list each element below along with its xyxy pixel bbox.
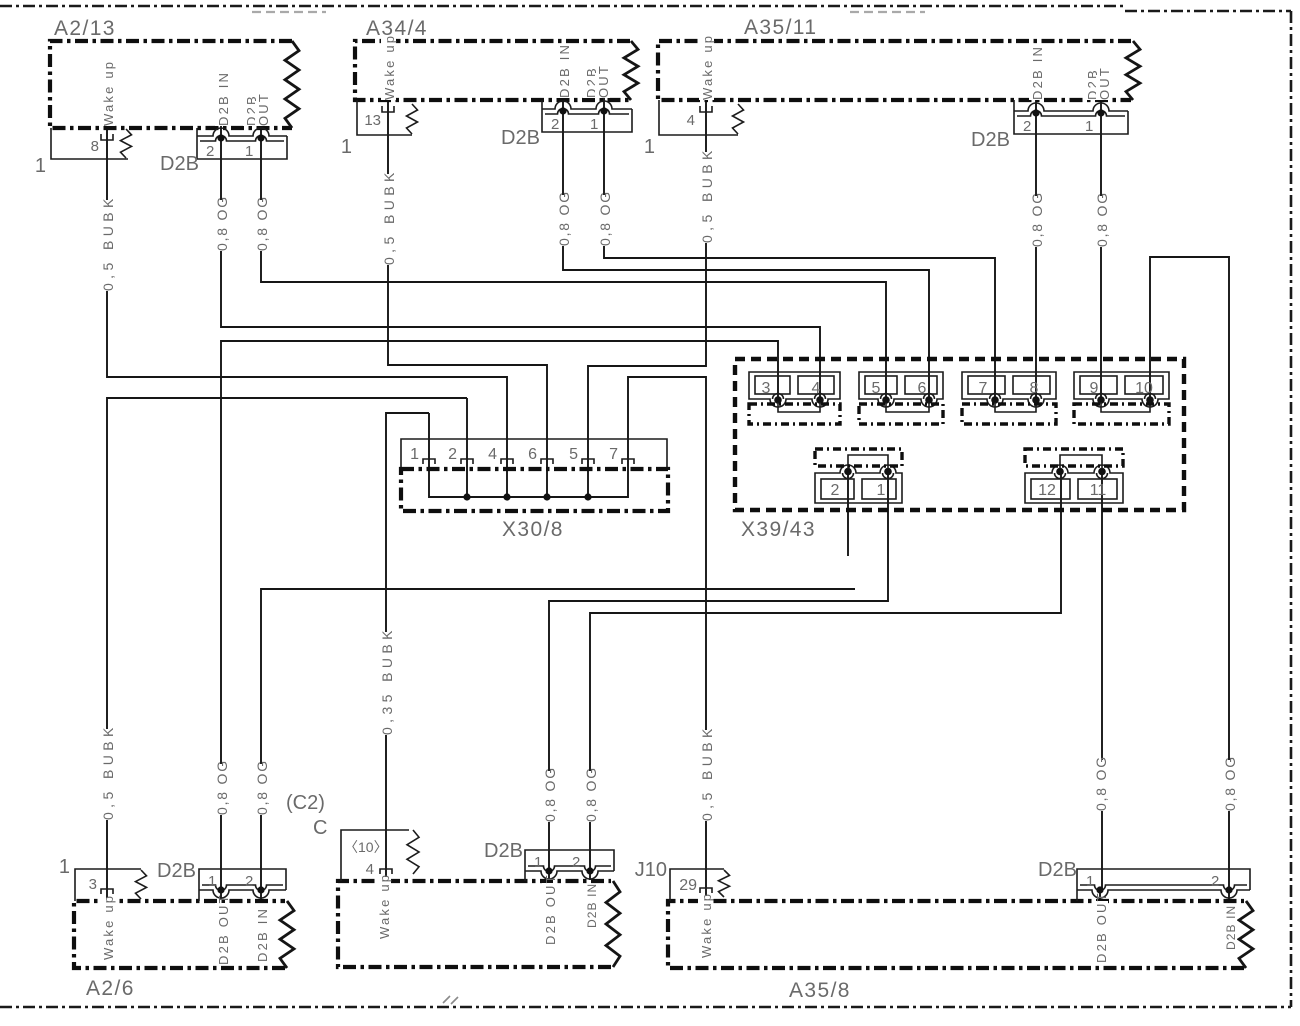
- label D2B IN A34/4: [556, 45, 571, 98]
- wire A35/11 pin4 to X30/8 pin5 (0,5 BUBK): [588, 94, 706, 470]
- wire X30/8 pin4 through: [506, 470, 508, 497]
- svg-text:D2B: D2B: [157, 860, 196, 882]
- X30/8 pin 6: [541, 459, 553, 464]
- svg-text:0,5 BUBK: 0,5 BUBK: [381, 168, 397, 265]
- svg-text:C: C: [313, 817, 327, 839]
- svg-text:A35/11: A35/11: [744, 16, 817, 39]
- A35/11 pin 4: [700, 106, 712, 112]
- label wake up A34/4: [381, 38, 396, 100]
- wire label 0,5 BUBK A2/13: [100, 200, 115, 291]
- label D2B IN A2/6: [254, 909, 269, 962]
- label D2B OUT A2/6: [215, 903, 230, 965]
- A34/4 wake-up resistor: [407, 104, 418, 134]
- X39/43 pins 12 and 11: [1025, 465, 1123, 503]
- svg-text:0,8 OG: 0,8 OG: [1222, 755, 1238, 811]
- X30/8 pin 7: [622, 459, 634, 464]
- label wake up A2/6: [100, 898, 115, 960]
- connector block X30/8 box: [401, 469, 668, 511]
- C D2B connector: [525, 850, 614, 881]
- svg-text:3: 3: [762, 380, 771, 397]
- wire A2/13 pin8 to X30/8 pin4 (0,5 BUBK): [107, 122, 507, 470]
- svg-text:2: 2: [448, 446, 457, 463]
- wire label 0,8 OG A34/4 pin2: [556, 195, 571, 246]
- wire label 0,5 BUBK A34/4: [381, 174, 396, 265]
- svg-text:0,8 OG: 0,8 OG: [1029, 191, 1045, 247]
- svg-text:6: 6: [528, 446, 537, 463]
- label OUT A35/11: [1096, 75, 1111, 100]
- svg-text:OUT: OUT: [1097, 66, 1112, 100]
- wire label 0,5 BUBK A35/11: [699, 152, 714, 243]
- svg-text:Wake up: Wake up: [101, 60, 116, 126]
- wire A35/11 D2B pin1 to X39/43 pin9 (0,8 OG): [1100, 96, 1102, 398]
- wire X30/8 pin1 to C pin4 (0,35 BUBK): [386, 413, 429, 879]
- svg-text:0,5 BUBK: 0,5 BUBK: [100, 723, 116, 820]
- label D2B (OUT) A2/13: [243, 101, 258, 126]
- wire X30/8 pin2 to A2/6 pin3 (0,5 BUBK): [107, 398, 467, 899]
- A35/8 D2B connector: [1077, 869, 1250, 901]
- wire A34/4 D2B pin1 to X39/43 pin7 (0,8 OG): [604, 92, 995, 398]
- wire label 0,8 OG A2/13 pin1: [254, 200, 269, 251]
- wire label 0,8 OG A2/6 pin2: [254, 764, 269, 815]
- label D2B (OUT) A34/4: [583, 73, 598, 98]
- svg-text:Wake up: Wake up: [377, 873, 392, 939]
- A2/13 pin 8: [101, 134, 113, 140]
- svg-text:1: 1: [534, 854, 542, 871]
- X30/8 pin 1: [423, 459, 435, 464]
- C cut mark zigzag: [407, 830, 419, 874]
- svg-text:0,5 BUBK: 0,5 BUBK: [100, 194, 116, 291]
- X39/43 pins 3 and 4: [749, 372, 840, 407]
- component A35/8 control unit box: [668, 901, 1244, 968]
- connector block X30/8 housing: [401, 439, 667, 469]
- A2/13 terminal bracket 1: [51, 128, 128, 159]
- page border bottom: [0, 1006, 1291, 1009]
- svg-text:2: 2: [831, 482, 840, 499]
- page join mark bottom: [443, 996, 458, 1004]
- svg-text:10: 10: [1135, 380, 1153, 397]
- svg-text:D2B: D2B: [484, 840, 523, 862]
- wire X39/43 pin12 to C D2B pin2 (0,8 OG): [590, 471, 1061, 871]
- svg-text:8: 8: [1030, 380, 1039, 397]
- svg-text:8: 8: [91, 138, 99, 155]
- svg-text:D2B IN: D2B IN: [1030, 45, 1045, 100]
- svg-text:X39/43: X39/43: [741, 518, 816, 541]
- junction dots X30/8 bus: [463, 493, 470, 500]
- label OUT A2/13: [255, 101, 270, 126]
- wire label 0,8 OG A35/11 pin1: [1094, 196, 1109, 247]
- A34/4 terminal bracket 1: [357, 100, 412, 135]
- wire X30/8 pin7 to A35/8 pin29 (0,5 BUBK): [628, 377, 706, 899]
- page border right: [1290, 11, 1293, 1007]
- label D2B IN A35/11: [1029, 47, 1044, 100]
- svg-text:OUT: OUT: [596, 64, 611, 98]
- svg-text:X30/8: X30/8: [502, 518, 564, 541]
- A35/8 pin 29: [700, 888, 712, 893]
- label D2B IN A2/13: [215, 73, 230, 126]
- svg-text:1: 1: [59, 856, 70, 878]
- svg-text:D2B IN: D2B IN: [1224, 905, 1238, 950]
- X30/8 pin 2: [461, 459, 473, 464]
- svg-text:1: 1: [1085, 118, 1093, 135]
- wire label 0,8 OG A2/6 pin1: [214, 764, 229, 815]
- wire X39/43 pin10 to A35/8 D2B pin2 (0,8 OG): [1150, 257, 1229, 890]
- svg-text:1: 1: [1086, 873, 1094, 890]
- svg-text:J10: J10: [635, 859, 667, 881]
- X39/43 pins 2 and 1: [815, 465, 902, 503]
- svg-text:1: 1: [245, 143, 253, 160]
- label D2B OUT C: [542, 883, 557, 945]
- svg-text:13: 13: [364, 112, 381, 129]
- wire X30/8 internal bus: [429, 413, 628, 497]
- svg-text:1: 1: [208, 873, 216, 890]
- svg-text:1: 1: [35, 155, 46, 177]
- label wake up C: [376, 877, 391, 939]
- svg-text:0,8 OG: 0,8 OG: [583, 766, 599, 822]
- svg-text:6: 6: [918, 380, 927, 397]
- wire label 0,8 OG C pin1: [542, 771, 557, 822]
- A2/13 wake-up resistor: [121, 129, 132, 158]
- svg-text:0,8 OG: 0,8 OG: [1094, 191, 1110, 247]
- label D2B IN C: [583, 884, 598, 928]
- svg-text:2: 2: [551, 116, 559, 133]
- component A2/6 control unit box: [74, 901, 285, 968]
- svg-text:2: 2: [572, 854, 580, 871]
- svg-text:4: 4: [687, 112, 695, 129]
- A35/11 D2B connector: [1014, 100, 1128, 134]
- A2/6 pin 3: [101, 889, 113, 894]
- svg-text:2: 2: [1023, 118, 1031, 135]
- wire X39/43 pin1 to C D2B pin1 (0,8 OG): [549, 471, 888, 871]
- svg-text:1: 1: [341, 136, 352, 158]
- svg-text:Wake up: Wake up: [700, 34, 715, 100]
- A2/13 D2B connector: [197, 128, 287, 159]
- wire stub A2/6 D2B pin1 into box: [220, 892, 222, 900]
- svg-text:A2/6: A2/6: [86, 977, 135, 1000]
- wire X39/43 pin2 stub: [847, 471, 849, 556]
- svg-text:Wake up: Wake up: [699, 892, 714, 958]
- wire label 0,8 OG A35/8 pin2: [1222, 760, 1237, 811]
- svg-text:D2B IN: D2B IN: [216, 71, 231, 126]
- A34/4 pin 13: [382, 106, 394, 112]
- svg-text:29: 29: [679, 877, 697, 894]
- label D2B IN A35/8: [1222, 906, 1237, 950]
- svg-text:2: 2: [1211, 873, 1219, 890]
- svg-text:0,8 OG: 0,8 OG: [214, 759, 230, 815]
- svg-text:Wake up: Wake up: [382, 34, 397, 100]
- svg-text:7: 7: [979, 380, 988, 397]
- svg-text:0,5 BUBK: 0,5 BUBK: [699, 146, 715, 243]
- X39/43 pins 9 and 10: [1074, 372, 1169, 407]
- svg-text:OUT: OUT: [256, 92, 271, 126]
- wire A2/6 D2B pin2 horizontal (0,8 OG): [261, 589, 855, 890]
- wire X30/8 pin2 through: [466, 398, 468, 497]
- svg-text:4: 4: [812, 380, 821, 397]
- X30/8 pin 5: [582, 459, 594, 464]
- component A34/4 control unit box: [355, 41, 630, 100]
- svg-text:5: 5: [872, 380, 881, 397]
- page join mark top-mid: [850, 11, 925, 13]
- svg-text:0,35 BUBK: 0,35 BUBK: [379, 626, 395, 735]
- svg-text:0,8 OG: 0,8 OG: [254, 195, 270, 251]
- C terminal bracket (10): [341, 830, 409, 881]
- svg-text:D2B OUT: D2B OUT: [1094, 891, 1109, 963]
- page join mark top-left: [252, 11, 326, 13]
- component C ((C2)) box: [338, 881, 611, 967]
- svg-text:5: 5: [569, 446, 578, 463]
- wire label 0,8 OG A2/13 pin2: [214, 200, 229, 251]
- wire stub C D2B pin2 into box: [589, 873, 591, 880]
- svg-text:0,8 OG: 0,8 OG: [1093, 755, 1109, 811]
- svg-text:2: 2: [245, 873, 253, 890]
- connector block X39/43 box: [735, 359, 1184, 510]
- A35/8 wake-up resistor: [719, 870, 730, 897]
- svg-text:D2B: D2B: [160, 153, 199, 175]
- label D2B OUT A35/8: [1093, 901, 1108, 963]
- wire label 0,5 BUBK A2/6: [100, 729, 115, 820]
- label OUT A34/4: [595, 73, 610, 98]
- svg-text:D2B OUT: D2B OUT: [543, 873, 558, 945]
- svg-text:7: 7: [609, 446, 618, 463]
- svg-text:1: 1: [410, 446, 419, 463]
- A2/6 D2B connector: [199, 869, 286, 901]
- svg-text:4: 4: [488, 446, 497, 463]
- svg-text:0,8 OG: 0,8 OG: [597, 190, 613, 246]
- svg-text:A35/8: A35/8: [789, 979, 851, 1002]
- wire stub A35/8 D2B pin1 into box: [1099, 892, 1101, 900]
- label wake up A2/13: [100, 64, 115, 126]
- component A35/11 control unit box: [658, 41, 1131, 100]
- svg-text:0,8 OG: 0,8 OG: [214, 195, 230, 251]
- svg-text:1: 1: [877, 482, 886, 499]
- A34/4 D2B connector: [542, 100, 632, 132]
- wire label 0,8 OG A35/11 pin2: [1029, 196, 1044, 247]
- svg-text:(C2): (C2): [286, 792, 325, 814]
- svg-text:9: 9: [1090, 380, 1099, 397]
- C pin 4: [380, 869, 392, 874]
- A35/11 wake-up resistor: [733, 104, 744, 134]
- svg-text:3: 3: [89, 876, 97, 893]
- wire A2/13 D2B pin2 to X39/43 pin4 (0,8 OG): [221, 118, 820, 398]
- wire A34/4 D2B pin2 to X39/43 pin6 (0,8 OG): [563, 92, 929, 398]
- svg-text:2: 2: [206, 143, 214, 160]
- svg-text:〈10〉: 〈10〉: [344, 839, 388, 855]
- svg-text:0,8 OG: 0,8 OG: [254, 759, 270, 815]
- svg-text:11: 11: [1090, 482, 1107, 499]
- A2/6 wake-up resistor: [136, 870, 147, 899]
- wire stub C D2B pin1 into box: [548, 873, 550, 880]
- svg-text:1: 1: [590, 116, 598, 133]
- svg-text:12: 12: [1038, 482, 1056, 499]
- A2/6 terminal bracket 1: [75, 869, 141, 901]
- svg-text:D2B: D2B: [501, 127, 540, 149]
- label D2B (OUT) A35/11: [1084, 75, 1099, 100]
- svg-text:D2B IN: D2B IN: [585, 883, 599, 928]
- svg-text:D2B IN: D2B IN: [255, 907, 270, 962]
- svg-text:Wake up: Wake up: [101, 894, 116, 960]
- X30/8 pin 4: [501, 459, 513, 464]
- wire X39/43 pin3 to A2/6 D2B pin1 (0,8 OG): [221, 341, 778, 890]
- svg-text:0,8 OG: 0,8 OG: [542, 766, 558, 822]
- wire stub A35/8 D2B pin2 into box: [1228, 892, 1230, 900]
- wire label 0,8 OG C pin2: [583, 771, 598, 822]
- svg-text:0,5 BUBK: 0,5 BUBK: [699, 724, 715, 821]
- svg-text:4: 4: [366, 861, 374, 878]
- wire label 0,35 BUBK: [379, 632, 394, 735]
- page border top: [0, 5, 1125, 8]
- wire X39/43 pin11 to A35/8 D2B pin1 (0,8 OG): [1101, 471, 1103, 890]
- svg-text:D2B: D2B: [1038, 859, 1077, 881]
- svg-text:D2B OUT: D2B OUT: [216, 893, 231, 965]
- A35/8 terminal bracket J10: [670, 869, 724, 901]
- svg-text:0,8 OG: 0,8 OG: [556, 190, 572, 246]
- wire X30/8 pin6 through: [546, 470, 548, 497]
- X39/43 pins 7 and 8: [962, 372, 1056, 407]
- svg-text:A2/13: A2/13: [54, 17, 116, 40]
- wire label 0,5 BUBK A35/8: [699, 730, 714, 821]
- X39/43 pins 5 and 6: [859, 372, 943, 407]
- A35/11 terminal bracket 1: [659, 100, 738, 135]
- svg-text:D2B IN: D2B IN: [557, 43, 572, 98]
- svg-text:D2B: D2B: [971, 129, 1010, 151]
- wire label 0,8 OG A35/8 pin1: [1093, 760, 1108, 811]
- component A2/13 control unit box: [50, 41, 292, 128]
- wire A2/13 D2B pin1 to X39/43 pin5 (0,8 OG): [261, 118, 886, 398]
- wire A34/4 pin13 to X30/8 pin6 (0,5 BUBK): [388, 94, 547, 470]
- wire X30/8 pin5 through: [587, 470, 589, 497]
- wire stub A2/6 D2B pin2 into box: [260, 892, 262, 900]
- label wake up A35/11: [699, 38, 714, 100]
- svg-text:1: 1: [644, 136, 655, 158]
- label wake up A35/8: [698, 896, 713, 958]
- wire A35/11 D2B pin2 to X39/43 pin8 (0,8 OG): [1035, 96, 1037, 398]
- wire label 0,8 OG A34/4 pin1: [597, 195, 612, 246]
